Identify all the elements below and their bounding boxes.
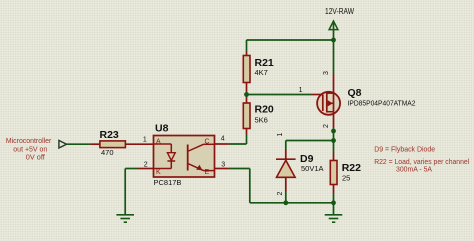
- power symbol 12V-RAW arrow: [329, 21, 338, 40]
- svg-text:4: 4: [221, 136, 225, 143]
- svg-text:U8: U8: [155, 123, 169, 135]
- wire ground rail: [250, 202, 334, 204]
- svg-text:IPD85P04P407ATMA2: IPD85P04P407ATMA2: [348, 99, 416, 108]
- svg-text:25: 25: [342, 174, 350, 183]
- svg-text:R23: R23: [100, 129, 119, 141]
- svg-text:PC817B: PC817B: [154, 178, 182, 187]
- label R23: [100, 129, 119, 141]
- power flag 12V-RAW label: [325, 7, 355, 16]
- svg-text:12V-RAW: 12V-RAW: [325, 7, 355, 16]
- pin number 1 (U8 anode): [143, 136, 147, 143]
- pin number 1 (D9 cathode, rotated): [277, 132, 284, 136]
- junction drain node / D9 branch: [331, 138, 336, 143]
- svg-text:3: 3: [323, 71, 330, 75]
- svg-text:C: C: [205, 139, 210, 146]
- ground (left): [116, 215, 134, 222]
- junction R21/R20/gate node: [244, 92, 249, 97]
- ground (right): [325, 203, 343, 222]
- label R20: [255, 104, 274, 116]
- svg-text:1: 1: [143, 136, 147, 143]
- wire gate node to Q8 gate: [247, 94, 312, 96]
- junction D9 / ground rail: [283, 200, 288, 205]
- value PC817B: [154, 178, 182, 187]
- transistor Q8 (P-MOSFET): [312, 74, 341, 128]
- svg-text:2: 2: [277, 191, 284, 195]
- diode D9: [276, 150, 296, 193]
- pin number 3 (Q8 drain, rotated): [323, 71, 330, 75]
- wire input to R23: [67, 143, 91, 145]
- wire drain node to D9 top: [286, 141, 334, 150]
- wire R22 bottom to ground junction: [333, 194, 335, 203]
- value IPD85P04P407ATMA2: [348, 99, 416, 108]
- svg-text:50V1A: 50V1A: [301, 164, 324, 173]
- label R21: [255, 57, 274, 69]
- svg-text:R22 = Load, varies per channel: R22 = Load, varies per channel: [374, 159, 469, 166]
- value 5K6: [255, 116, 268, 125]
- pin number 2 (Q8 source, rotated): [323, 124, 330, 128]
- wire U8 cathode to ground (left): [125, 169, 153, 215]
- wire drain node down to R22: [333, 141, 335, 153]
- wire D9 bottom to ground rail: [285, 192, 287, 203]
- svg-text:300mA - 5A: 300mA - 5A: [396, 166, 432, 173]
- pin number 4 (U8 collector): [221, 136, 225, 143]
- svg-text:4K7: 4K7: [255, 68, 268, 77]
- U8 pin 4 lead: [215, 143, 229, 145]
- pin number 3 (U8 emitter): [221, 162, 225, 169]
- wire 12V junction down to Q8 pin: [333, 40, 335, 74]
- junction at Q8 pin end: [331, 129, 336, 134]
- pin number 2 (U8 cathode): [144, 162, 148, 169]
- wire Q8 pin to drain node: [333, 128, 335, 141]
- pin number 2 (D9 anode, rotated): [277, 191, 284, 195]
- value 470: [101, 148, 114, 157]
- svg-text:2: 2: [323, 124, 330, 128]
- wire 12V rail down to R21: [246, 40, 248, 52]
- junction ground rail / R22 / ground symbol: [331, 200, 336, 205]
- svg-text:3: 3: [221, 162, 225, 169]
- svg-text:5K6: 5K6: [255, 116, 268, 125]
- svg-text:1: 1: [299, 87, 303, 94]
- label U8: [155, 123, 169, 135]
- svg-text:A: A: [156, 139, 161, 146]
- U8 pin 3 lead: [215, 168, 229, 170]
- label R22: [342, 162, 361, 174]
- resistor R23: [90, 141, 153, 148]
- wire R20 bottom to U8 pin 4: [229, 135, 247, 145]
- note D9 flyback text: [374, 146, 435, 153]
- optocoupler U8 (PC817B): [154, 136, 215, 178]
- label D9: [300, 153, 314, 165]
- junction at 12V rail / Q8 drain column: [331, 38, 336, 43]
- svg-text:out +5V on: out +5V on: [13, 146, 47, 153]
- wire R21 bottom to junction: [246, 92, 248, 98]
- input terminal (from microcontroller): [59, 140, 67, 148]
- value 4K7: [255, 68, 268, 77]
- pin number 1 (Q8 gate): [299, 87, 303, 94]
- svg-text:0V off: 0V off: [26, 155, 45, 162]
- svg-text:K: K: [156, 169, 161, 176]
- svg-text:D9 = Flyback Diode: D9 = Flyback Diode: [374, 146, 435, 153]
- svg-text:E: E: [205, 169, 210, 176]
- svg-text:470: 470: [101, 148, 114, 157]
- svg-text:R22: R22: [342, 162, 361, 174]
- note microcontroller text: [6, 138, 52, 162]
- svg-text:1: 1: [277, 132, 284, 136]
- wire U8 emitter to ground rail: [229, 169, 250, 203]
- resistor R22: [330, 153, 337, 194]
- resistor R20: [243, 97, 250, 135]
- svg-text:R20: R20: [255, 104, 274, 116]
- value 25: [342, 174, 350, 183]
- svg-text:Q8: Q8: [348, 87, 362, 99]
- svg-text:Microcontroller: Microcontroller: [6, 138, 52, 145]
- resistor R21: [243, 52, 250, 92]
- label Q8: [348, 87, 362, 99]
- wire 12V rail horizontal: [247, 39, 334, 41]
- value 50V1A: [301, 164, 324, 173]
- note R22 load text: [374, 159, 469, 173]
